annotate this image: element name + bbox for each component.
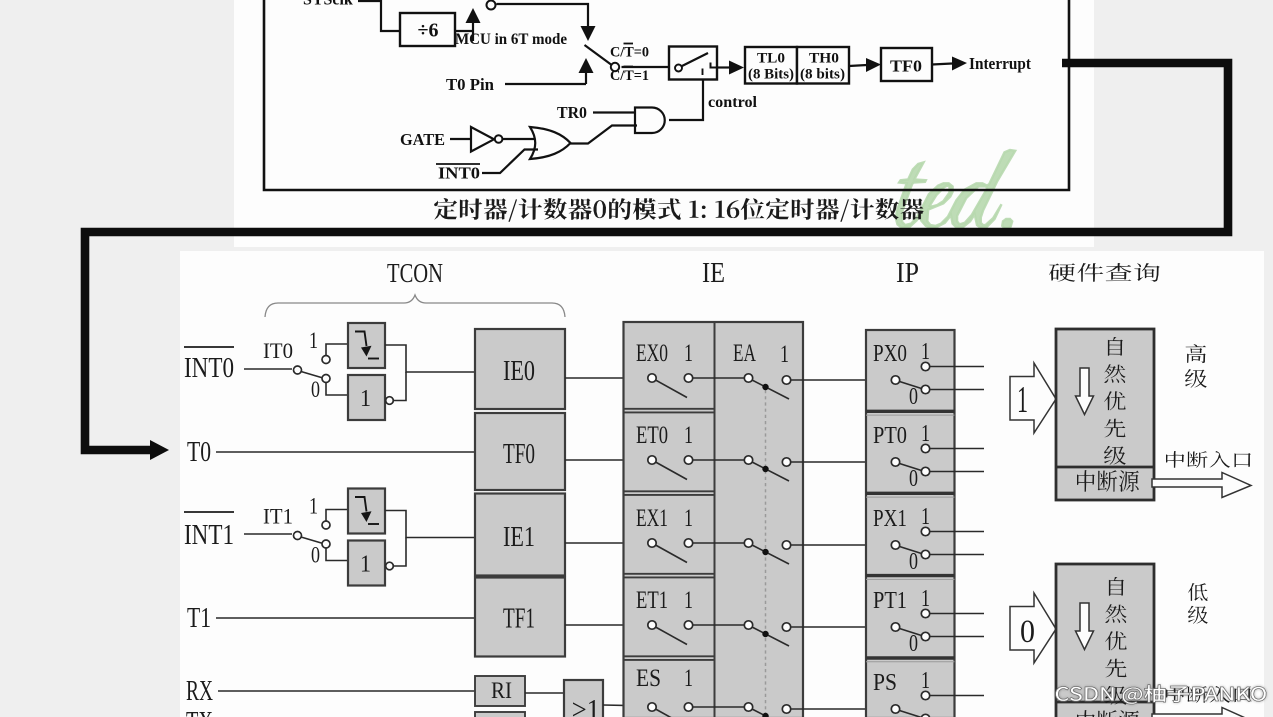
svg-text:0: 0	[311, 543, 320, 568]
svg-text:1: 1	[309, 494, 318, 519]
svg-text:RX: RX	[186, 675, 213, 707]
svg-text:1: 1	[360, 552, 371, 578]
svg-text:EX1: EX1	[636, 505, 668, 532]
svg-text:1: 1	[309, 328, 318, 353]
svg-text:C/T=0: C/T=0	[610, 45, 649, 61]
svg-text:EX0: EX0	[636, 340, 668, 367]
svg-text:INT0: INT0	[438, 164, 480, 183]
svg-text:1: 1	[921, 504, 930, 530]
svg-text:÷6: ÷6	[418, 20, 439, 42]
svg-text:MCU in 6T mode: MCU in 6T mode	[455, 31, 567, 48]
svg-text:1: 1	[921, 339, 930, 365]
svg-text:TCON: TCON	[387, 258, 443, 288]
svg-text:GATE: GATE	[400, 130, 445, 149]
svg-text:control: control	[708, 94, 758, 111]
svg-text:TL0: TL0	[757, 51, 785, 67]
svg-text:≥1: ≥1	[572, 694, 600, 717]
svg-text:TF0: TF0	[503, 439, 535, 470]
svg-text:IE: IE	[702, 258, 725, 289]
svg-text:PT0: PT0	[873, 423, 907, 449]
svg-text:1: 1	[684, 505, 693, 532]
svg-text:0: 0	[909, 549, 918, 575]
svg-text:EA: EA	[733, 340, 756, 367]
svg-text:1: 1	[921, 421, 930, 447]
svg-text:PS: PS	[873, 670, 897, 696]
svg-text:IP: IP	[896, 258, 919, 289]
svg-text:IE0: IE0	[503, 356, 535, 387]
svg-text:IT0: IT0	[263, 338, 293, 363]
svg-text:0: 0	[909, 466, 918, 492]
svg-text:1: 1	[684, 340, 693, 367]
svg-text:PT1: PT1	[873, 588, 907, 614]
svg-text:ET0: ET0	[636, 422, 668, 449]
svg-text:1: 1	[921, 586, 930, 612]
svg-text:0: 0	[311, 377, 320, 402]
svg-text:ES: ES	[636, 665, 661, 692]
svg-text:T1: T1	[187, 602, 211, 634]
svg-text:IE1: IE1	[503, 522, 535, 553]
svg-text:1: 1	[921, 668, 930, 694]
svg-text:T0 Pin: T0 Pin	[446, 75, 494, 94]
svg-text:(8 bits): (8 bits)	[800, 67, 845, 83]
svg-text:SYSclk: SYSclk	[303, 0, 353, 9]
svg-text:RI: RI	[491, 678, 512, 703]
svg-text:INT0: INT0	[184, 352, 234, 384]
svg-text:1: 1	[684, 587, 693, 614]
svg-text:1: 1	[1017, 379, 1028, 421]
svg-text:1: 1	[360, 386, 371, 412]
svg-text:TF0: TF0	[890, 57, 922, 76]
svg-text:1: 1	[684, 422, 693, 449]
svg-text:0: 0	[909, 631, 918, 657]
svg-text:1: 1	[780, 341, 789, 368]
svg-text:1: 1	[684, 665, 693, 692]
svg-text:TR0: TR0	[557, 103, 587, 122]
svg-text:0: 0	[909, 384, 918, 410]
svg-text:TH0: TH0	[809, 51, 839, 67]
svg-text:0: 0	[1020, 614, 1035, 650]
svg-text:PX0: PX0	[873, 341, 907, 367]
svg-text:ET1: ET1	[636, 587, 668, 614]
svg-text:INT1: INT1	[184, 519, 234, 551]
svg-text:IT1: IT1	[263, 504, 293, 529]
svg-text:PX1: PX1	[873, 506, 907, 532]
svg-text:(8 Bits): (8 Bits)	[748, 67, 794, 83]
svg-text:TX: TX	[186, 706, 213, 717]
svg-text:Interrupt: Interrupt	[969, 54, 1031, 73]
svg-text:T0: T0	[187, 436, 211, 468]
svg-text:TF1: TF1	[503, 604, 535, 635]
